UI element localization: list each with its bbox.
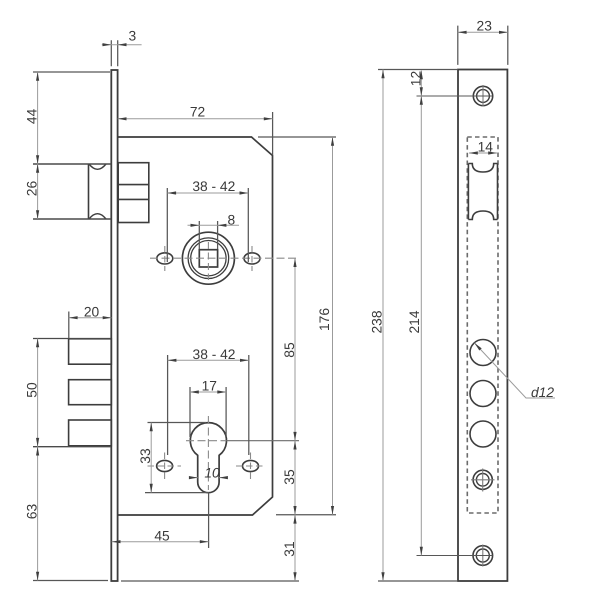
deadbolt tooth 3	[69, 420, 112, 446]
dimension 14 (latch cutout width)	[469, 152, 497, 154]
centerline horizontal through follower row	[150, 257, 296, 259]
dimension 38-42 upper (handle holes span)	[167, 188, 248, 262]
handle fixing slot right (upper)	[244, 253, 260, 264]
dimension 33 (cylinder height)	[148, 422, 207, 424]
centerline crosshair lower-right slot	[236, 465, 265, 467]
svg-text:63: 63	[25, 504, 40, 520]
svg-text:85: 85	[282, 342, 297, 358]
latch bolt head (left of faceplate)	[88, 164, 90, 219]
centerline vertical through cylinder	[207, 416, 209, 490]
bolt hole 1 (d12)	[470, 340, 496, 366]
svg-text:38 - 42: 38 - 42	[192, 179, 235, 194]
euro cylinder cutout	[190, 423, 226, 493]
strike plate outline	[458, 70, 507, 582]
dimension 20 (deadbolt throw)	[68, 312, 70, 339]
dimension 45 (backset)	[208, 493, 210, 548]
dimension 38-42 lower (cylinder holes span)	[168, 355, 249, 455]
bolt hole 2 (d12)	[470, 381, 496, 407]
dimension 12 (top edge to screw)	[420, 71, 422, 97]
lock body outline with chamfered right corners	[118, 137, 272, 515]
svg-text:3: 3	[129, 29, 137, 44]
dimension 238 (plate height)	[382, 70, 384, 582]
dimension 176 (body height)	[332, 137, 334, 515]
handle fixing slot left (upper)	[157, 253, 173, 264]
extension line bottom screw to 214	[417, 555, 493, 557]
cylinder fixing slot right (lower)	[243, 460, 259, 471]
dimension 3 (faceplate thickness)	[111, 40, 117, 66]
leader d12	[475, 343, 556, 398]
dimension 26 (latch height)	[37, 164, 39, 219]
extension line faceplate bottom right	[121, 580, 299, 582]
dimension 50 (deadbolt block height)	[33, 338, 111, 340]
extension line plate bottom to 238	[378, 580, 457, 582]
dimension 10 (cylinder tail width, italic)	[189, 477, 227, 479]
bolt hole 3 (d12)	[470, 421, 496, 447]
svg-text:31: 31	[282, 541, 297, 556]
faceplate (forend plate, edge view)	[111, 70, 117, 581]
dashed cutout rectangle	[467, 137, 498, 513]
middle screw hole	[473, 470, 492, 489]
spindle square hole 8mm	[199, 250, 217, 267]
svg-text:214: 214	[407, 310, 422, 333]
spindle follower hub (outer circle)	[182, 232, 234, 284]
centerline horizontal through cylinder	[186, 440, 226, 442]
svg-text:44: 44	[25, 108, 40, 124]
dimension 72 (body depth)	[272, 112, 274, 155]
svg-text:17: 17	[202, 379, 217, 394]
centerline crosshair lower-left slot	[148, 465, 182, 467]
svg-text:72: 72	[190, 104, 205, 119]
svg-text:26: 26	[25, 181, 40, 197]
centerline vertical dashes upper slots	[165, 246, 252, 271]
svg-text:23: 23	[477, 18, 493, 33]
extension line body bottom	[276, 514, 336, 516]
svg-text:20: 20	[84, 304, 100, 319]
dimension 17 (cylinder width)	[190, 387, 226, 437]
svg-text:50: 50	[25, 382, 40, 398]
svg-text:38 - 42: 38 - 42	[193, 347, 236, 362]
dimension 8 (square spindle)	[199, 221, 217, 249]
latch bolt tail (inside body)	[118, 163, 149, 223]
svg-text:33: 33	[138, 448, 153, 464]
centerline vertical through follower	[207, 242, 209, 280]
extension line body top to 176	[258, 136, 336, 138]
svg-text:45: 45	[154, 529, 170, 544]
svg-text:10: 10	[204, 465, 220, 480]
dimension 44 (top to latch)	[33, 71, 110, 73]
svg-text:12: 12	[408, 71, 423, 86]
svg-text:176: 176	[317, 308, 332, 331]
extension line plate top to 238	[378, 69, 457, 71]
svg-text:14: 14	[478, 140, 494, 155]
bottom screw hole	[473, 546, 493, 566]
deadbolt tooth 1	[69, 339, 112, 364]
deadbolt tooth 2	[69, 380, 112, 405]
dimension 31 (body bottom to plate bottom)	[294, 515, 296, 581]
cylinder fixing slot left (lower)	[157, 460, 173, 471]
spindle follower ring	[188, 238, 229, 279]
dimension 85 (follower to cylinder)	[294, 258, 296, 441]
extension line top screw to 12/214	[417, 95, 493, 97]
svg-text:238: 238	[369, 310, 384, 333]
dimension 63 (deadbolt to bottom)	[33, 580, 108, 582]
latch cutout (spool shape)	[468, 164, 497, 220]
svg-text:35: 35	[282, 469, 297, 485]
svg-text:8: 8	[227, 212, 235, 227]
svg-text:d12: d12	[531, 385, 554, 400]
dimension 214 (screw spacing)	[420, 96, 422, 556]
dimension 35 (cylinder to body bottom)	[294, 441, 296, 515]
dimension 23 (plate width)	[458, 26, 508, 65]
top screw hole	[473, 86, 492, 105]
